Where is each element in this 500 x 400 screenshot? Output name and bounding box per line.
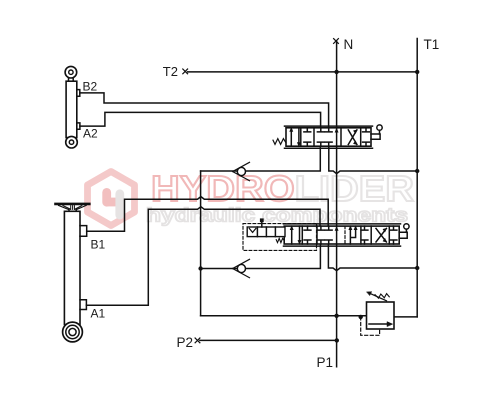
cylinder C1 blade plate bbox=[56, 203, 90, 206]
cylinder C1 port A1 bbox=[80, 300, 86, 310]
port T2 x-mark bbox=[183, 69, 188, 74]
cylinder C2 port A2 bbox=[77, 123, 80, 129]
svg-text:N: N bbox=[344, 37, 354, 52]
valve V2 box5 blocked ports bbox=[361, 226, 368, 244]
valve V1 lever actuator bbox=[371, 134, 380, 139]
check valve CV2 bbox=[237, 264, 245, 272]
valve V2 float box X bbox=[376, 228, 386, 242]
wire T2 line bbox=[188, 71, 418, 73]
valve V2 proportional lines bbox=[284, 224, 401, 246]
svg-text:B2: B2 bbox=[83, 79, 98, 93]
valve V2 detent notch mark bbox=[249, 228, 256, 232]
wire valve V2 tank branch to T1 (hop under N) bbox=[328, 244, 417, 271]
valve V2 box2 blocked ports bbox=[304, 226, 311, 244]
valve V2 spring bbox=[276, 238, 284, 242]
wire N / open-center vertical bbox=[336, 41, 338, 367]
valve V1 box1 flow arrows bbox=[291, 128, 299, 146]
valve V1 end box blocked ports bbox=[363, 128, 370, 146]
valve V1 proportional lines bbox=[285, 126, 373, 148]
cylinder C2 rod neck bbox=[69, 78, 74, 81]
wire pressure line to relief valve bbox=[201, 315, 367, 317]
cylinder C1 plate hatching bbox=[59, 205, 87, 209]
wire B2 to valve V1 bbox=[80, 93, 329, 128]
relief valve adjustment arrow bbox=[370, 293, 387, 301]
svg-text:P1: P1 bbox=[317, 355, 334, 370]
cylinder C1 port B1 bbox=[80, 226, 87, 237]
cylinder C2 barrel bbox=[66, 81, 77, 137]
cylinder C2 bottom eye bbox=[66, 136, 78, 148]
valve V2 dashed transition divider bbox=[344, 226, 346, 244]
svg-text:A2: A2 bbox=[83, 127, 98, 141]
relief valve spring bbox=[375, 294, 389, 299]
relief valve pilot dashed line bbox=[361, 317, 380, 335]
check valve CV1 bbox=[237, 167, 245, 175]
valve V2 body bbox=[284, 226, 399, 244]
valve V1 center open passage with arrow bbox=[336, 128, 338, 146]
valve V2 box1 flow arrows bbox=[292, 226, 300, 244]
port N x-mark bbox=[334, 39, 339, 44]
valve V2 pilot dashed enclosure bbox=[243, 224, 317, 251]
svg-text:T2: T2 bbox=[163, 64, 178, 79]
svg-text:B1: B1 bbox=[91, 237, 106, 251]
relief valve flow arrow bbox=[369, 323, 390, 325]
wire A1 to valve V2 (hops over check line) bbox=[86, 207, 320, 306]
cylinder C2 port B2 bbox=[77, 90, 80, 97]
valve V2 lever actuator bbox=[399, 232, 407, 238]
port P2 x-mark bbox=[195, 338, 200, 343]
wire check circuit vertical bbox=[200, 171, 202, 316]
relief valve RV1 body bbox=[367, 302, 395, 329]
wire valve V2 work branch to check CV2 bbox=[201, 244, 321, 269]
valve V2 end box blocked ports bbox=[390, 226, 397, 244]
valve V1 float box X bbox=[348, 130, 357, 145]
svg-text:A1: A1 bbox=[91, 306, 106, 320]
valve V2 box4 regen arrows bbox=[350, 228, 355, 244]
cylinder C2 top eye bbox=[65, 66, 77, 78]
valve V2 kickout stem and knob bbox=[261, 222, 263, 227]
svg-text:HYDROLIDER: HYDROLIDER bbox=[151, 168, 414, 209]
watermark logo hexagon bbox=[88, 168, 415, 227]
valve V1 body bbox=[286, 128, 371, 146]
wire valve V1 work branch to check CV1 bbox=[201, 146, 321, 171]
valve V2 center open passage with arrow bbox=[336, 226, 338, 244]
wire valve V1 tank branch to T1 (hop under N) bbox=[329, 146, 417, 174]
valve V1 box2 blocked ports bbox=[304, 128, 311, 146]
wire A2 to valve V1 bbox=[80, 112, 321, 127]
cylinder C1 rod neck bbox=[69, 210, 76, 212]
cylinder C1 bottom eye bbox=[63, 322, 83, 342]
wire B1 to valve V2 (hops over check line) bbox=[87, 197, 329, 232]
valve V1 spring bbox=[273, 139, 286, 145]
wire T1 vertical bbox=[416, 39, 418, 317]
cylinder C1 barrel bbox=[64, 211, 80, 324]
valve V1 center box blocked A bbox=[317, 128, 324, 146]
svg-text:T1: T1 bbox=[424, 37, 440, 52]
wire relief valve outlet to T1 bbox=[394, 316, 417, 318]
valve V2 center box blocked B bbox=[325, 226, 332, 244]
svg-text:P2: P2 bbox=[177, 335, 194, 350]
valve V2 center box blocked A bbox=[318, 226, 325, 244]
valve V2 detent plate row bbox=[247, 227, 285, 237]
wire P2 line bbox=[200, 339, 337, 341]
valve V1 center box blocked B bbox=[325, 128, 332, 146]
